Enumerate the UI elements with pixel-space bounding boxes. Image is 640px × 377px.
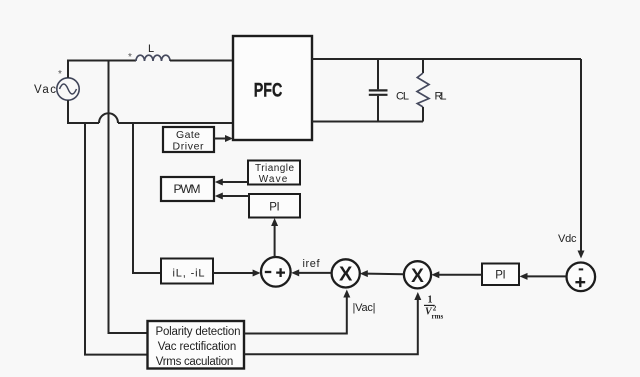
block PWM <box>161 177 214 201</box>
wire branch bottom to iL block <box>133 123 161 273</box>
svg-text:RL: RL <box>435 91 447 103</box>
arrowhead into X2 right <box>431 271 439 278</box>
block Polarity detection <box>148 321 245 369</box>
block iL, -iL <box>161 259 213 284</box>
arrowhead into PFC left <box>225 135 233 142</box>
arrowhead up into X1 bottom <box>343 290 350 298</box>
wire inductor to PFC <box>170 60 233 62</box>
arrowhead up into PI bottom <box>271 218 278 226</box>
arrowhead into summer right <box>291 269 299 276</box>
wire PI to multiplier X2 <box>437 274 482 276</box>
svg-text:Vac rectification: Vac rectification <box>158 341 237 353</box>
svg-text:X: X <box>339 264 353 286</box>
capacitor CL <box>369 59 388 122</box>
resistor RL <box>417 59 429 122</box>
arrowhead into PI right <box>520 273 528 280</box>
wire Vac bottom lead <box>68 100 99 123</box>
svg-text:Vrms caculation: Vrms caculation <box>156 356 234 368</box>
wire polarity box to vrms riser <box>244 298 418 354</box>
multiplier X1 <box>332 259 360 287</box>
svg-text:iref: iref <box>303 258 321 270</box>
wire bottom horizontal to PFC <box>118 122 233 124</box>
svg-text:Wave: Wave <box>259 174 288 185</box>
arrowhead into PWM right upper <box>215 179 223 186</box>
svg-text:Polarity detection: Polarity detection <box>156 326 241 338</box>
svg-text:2: 2 <box>433 305 437 313</box>
arrowhead into X1 right <box>360 270 368 277</box>
block Gate Driver <box>163 127 214 152</box>
svg-text:1: 1 <box>428 294 433 305</box>
wire PI upper to PWM <box>222 195 250 197</box>
wire Vdc summer to PI <box>525 275 566 277</box>
wire branch bottom to vrms input <box>85 123 148 355</box>
svg-text:PI: PI <box>269 202 280 214</box>
svg-text:Driver: Driver <box>173 140 205 152</box>
arrowhead into PWM right lower <box>215 193 223 200</box>
wire X1 to current summer <box>297 272 332 274</box>
wire Gate Driver to PFC <box>214 138 227 140</box>
wire Vac top lead <box>67 61 69 78</box>
svg-text:Vdc: Vdc <box>558 233 577 245</box>
arrowhead down into Vdc summer <box>578 251 585 259</box>
arrowhead up into X2 bottom <box>414 292 421 300</box>
wire Triangle Wave to PWM <box>222 181 249 183</box>
svg-text:Gate: Gate <box>176 129 200 141</box>
svg-text:X: X <box>411 266 424 287</box>
svg-text:Triangle: Triangle <box>255 163 294 174</box>
multiplier X2 <box>404 261 431 288</box>
wire PFC top output <box>312 58 581 60</box>
wire summer to PI above <box>274 224 276 257</box>
block Triangle Wave <box>248 161 300 186</box>
summing junction current <box>261 257 291 287</box>
svg-text:L: L <box>148 43 154 55</box>
wire hop over vertical <box>99 113 118 123</box>
wire Vdc feedback down <box>580 59 582 252</box>
svg-text:PFC: PFC <box>254 81 283 102</box>
svg-text:rms: rms <box>432 313 444 321</box>
wire PFC bottom output <box>312 121 423 123</box>
wire polarity box to Vac rectified riser <box>244 295 347 334</box>
svg-text:PWM: PWM <box>174 182 201 196</box>
source Vac <box>57 78 79 100</box>
label 1 over Vrms squared <box>424 294 443 320</box>
svg-text:CL: CL <box>396 91 409 103</box>
arrowhead into summer left <box>253 270 261 277</box>
block PI upper <box>249 194 300 218</box>
wire X2 to X1 <box>366 273 404 276</box>
inductor L <box>136 55 170 61</box>
wire branch top to polarity box <box>109 61 148 334</box>
summing junction Vdc <box>567 263 596 292</box>
svg-text:Vac: Vac <box>34 84 56 96</box>
block PFC <box>233 36 312 140</box>
wire iL block to summer <box>213 272 255 274</box>
svg-text:iL, -iL: iL, -iL <box>173 268 205 280</box>
svg-text:*: * <box>58 69 62 80</box>
svg-text:|Vac|: |Vac| <box>353 302 376 314</box>
svg-text:*: * <box>128 52 132 63</box>
block PI right <box>482 264 519 286</box>
svg-text:PI: PI <box>495 270 506 282</box>
wire top horizontal Vac to inductor <box>67 60 136 62</box>
